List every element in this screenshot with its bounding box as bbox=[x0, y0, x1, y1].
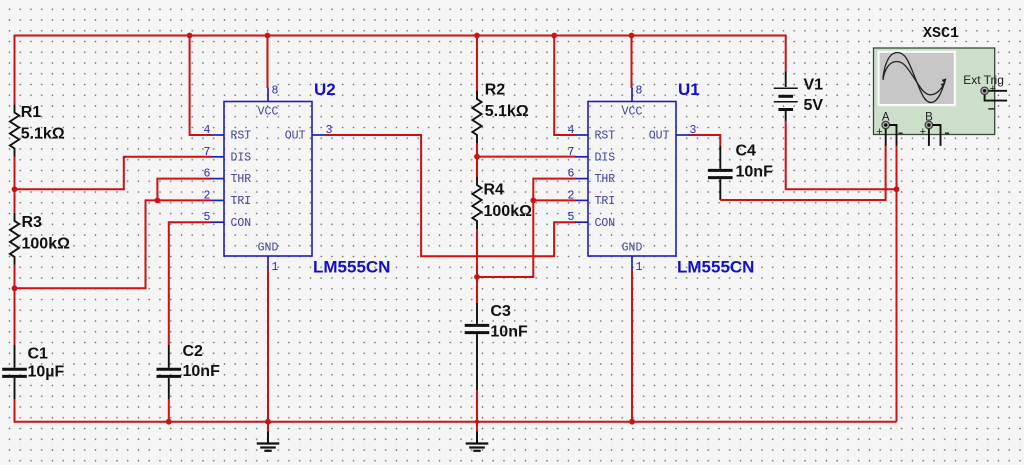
svg-text:8: 8 bbox=[272, 85, 279, 98]
svg-text:C1: C1 bbox=[28, 345, 49, 362]
U1 pin 5 CON stub bbox=[575, 221, 588, 223]
U2 pin 1 GND stub bbox=[267, 256, 269, 270]
svg-text:OUT: OUT bbox=[649, 130, 670, 143]
svg-text:THR: THR bbox=[231, 173, 252, 186]
wire R1 bottom to node A junction bbox=[14, 157, 16, 190]
wire U1 GND pin1 to ground rail bbox=[631, 270, 633, 422]
XSC1 channel A minus mark bbox=[898, 132, 902, 134]
junction node C (R2/R4/U1-DIS) bbox=[474, 154, 480, 160]
junction top rail at R2 bbox=[474, 33, 480, 39]
svg-text:DIS: DIS bbox=[595, 151, 616, 164]
svg-text:DIS: DIS bbox=[231, 151, 252, 164]
svg-text:U1: U1 bbox=[678, 80, 700, 99]
svg-text:100kΩ: 100kΩ bbox=[484, 203, 533, 220]
junction node B (R3/C1/U2-TRI) bbox=[12, 285, 18, 291]
svg-text:1: 1 bbox=[636, 261, 643, 274]
junction top rail at U2 VCC bbox=[265, 33, 271, 39]
U1 pin 1 GND stub bbox=[631, 256, 633, 270]
wire node A to R3 top bbox=[14, 189, 16, 213]
svg-text:A: A bbox=[882, 112, 890, 124]
U1 pin 8 VCC stub bbox=[631, 88, 633, 102]
wire top VCC rail from left rail to V1 bbox=[15, 35, 786, 37]
XSC1 Ext Trig minus mark bbox=[988, 108, 994, 110]
XSC1 channel B+ pin stub bbox=[928, 129, 930, 146]
svg-text:5: 5 bbox=[568, 211, 575, 224]
wire U1 VCC pin8 to top rail bbox=[631, 36, 633, 89]
XSC1 channel B terminal bbox=[925, 121, 932, 128]
XSC1 Ext Trig terminal bbox=[981, 87, 988, 94]
svg-text:+: + bbox=[990, 83, 996, 95]
wire C4 bottom to scope channel A+ bbox=[720, 145, 885, 200]
XSC1 Ext Trig+ pin stub bbox=[988, 90, 1007, 92]
XSC1 screen bbox=[878, 51, 956, 106]
wire R4 bottom to node D bbox=[476, 229, 478, 277]
svg-text:OUT: OUT bbox=[285, 130, 306, 143]
U2 pin 5 CON stub bbox=[211, 221, 224, 223]
junction top rail at U1 RST riser bbox=[551, 33, 557, 39]
svg-text:C3: C3 bbox=[490, 303, 511, 320]
wire U2 THR pin6 down to TRI net bbox=[157, 179, 211, 201]
svg-text:10µF: 10µF bbox=[28, 364, 65, 381]
resistor R3 body bbox=[10, 213, 19, 265]
svg-text:5.1kΩ: 5.1kΩ bbox=[485, 103, 529, 120]
svg-text:GND: GND bbox=[622, 242, 643, 255]
svg-text:R3: R3 bbox=[22, 214, 43, 231]
svg-text:8: 8 bbox=[636, 85, 643, 98]
U1 pin 7 DIS stub bbox=[575, 156, 588, 158]
svg-text:XSC1: XSC1 bbox=[923, 25, 959, 42]
wire C2 bottom to ground rail bbox=[168, 399, 170, 422]
U2 pin 8 VCC stub bbox=[267, 88, 269, 102]
XSC1 channel A- pin stub hook bbox=[889, 125, 896, 146]
svg-text:LM555CN: LM555CN bbox=[677, 258, 754, 277]
svg-text:R4: R4 bbox=[484, 182, 505, 199]
junction top rail at U1 VCC bbox=[629, 33, 635, 39]
wire U2 RST pin4 from top rail bbox=[190, 36, 211, 136]
U1 pin 2 TRI stub bbox=[575, 199, 588, 201]
XSC1 channel A+ pin stub bbox=[885, 129, 887, 146]
svg-text:R2: R2 bbox=[485, 82, 506, 99]
junction top rail at U2 RST riser bbox=[187, 33, 193, 39]
svg-text:10nF: 10nF bbox=[490, 324, 528, 341]
svg-text:1: 1 bbox=[272, 261, 279, 274]
wire U2 OUT pin3 to U1 CON pin5 bbox=[325, 135, 576, 256]
ground symbol under U2 bbox=[257, 422, 280, 451]
XSC1 screen sine wave trace 1 bbox=[883, 53, 946, 103]
svg-text:Ext Trig: Ext Trig bbox=[963, 73, 1004, 87]
U2 pin 7 DIS stub bbox=[211, 156, 224, 158]
oscilloscope XSC1 body bbox=[874, 48, 995, 135]
wire bottom ground rail bbox=[14, 421, 897, 423]
XSC1 channel B- pin stub hook bbox=[933, 125, 941, 146]
XSC1 screen sine wave trace 2 bbox=[883, 62, 945, 95]
junction ground rail at U1 GND bbox=[629, 419, 635, 425]
wire V1 negative to junction node E bbox=[786, 121, 897, 189]
wire scope A- down through node E to ground rail bbox=[896, 145, 898, 421]
XSC1 channel A terminal bbox=[882, 121, 889, 128]
junction node E (V1-/scope A-/ground rail) bbox=[894, 186, 900, 192]
svg-text:RST: RST bbox=[231, 130, 252, 143]
junction ground rail at C3 bbox=[475, 420, 479, 424]
wire U1 DIS pin7 from node C bbox=[477, 156, 576, 158]
svg-text:VCC: VCC bbox=[622, 106, 643, 119]
wire U1 TRI pin2 tie to node D bbox=[478, 200, 576, 277]
wire top rail corner down to V1 bbox=[785, 35, 787, 72]
svg-text:R1: R1 bbox=[21, 104, 42, 121]
capacitor C3 body bbox=[465, 303, 490, 390]
svg-text:RST: RST bbox=[595, 130, 616, 143]
wire node D to C3 top bbox=[476, 277, 478, 303]
wire C1 bottom to ground rail corner bbox=[14, 399, 16, 422]
svg-text:+: + bbox=[876, 126, 882, 138]
capacitor C1 body bbox=[2, 345, 27, 399]
svg-text:C4: C4 bbox=[736, 143, 757, 160]
svg-text:CON: CON bbox=[595, 217, 616, 230]
capacitor C4 body bbox=[708, 146, 733, 200]
wire U2 TRI pin2 to node B bbox=[16, 200, 212, 288]
U2 pin 6 THR stub bbox=[211, 178, 224, 180]
wire U1 THR pin6 down to TRI tie bbox=[533, 179, 575, 201]
svg-text:TRI: TRI bbox=[231, 195, 252, 208]
svg-text:C2: C2 bbox=[183, 343, 204, 360]
svg-text:5.1kΩ: 5.1kΩ bbox=[21, 125, 65, 142]
junction node A (R1/R3/U2-DIS) bbox=[12, 186, 18, 192]
wire R2 bottom to node C bbox=[476, 143, 478, 157]
wire U2 VCC pin8 to top rail bbox=[267, 36, 269, 89]
svg-text:5V: 5V bbox=[804, 97, 824, 114]
U1 pin 6 THR stub bbox=[575, 178, 588, 180]
U2 pin 2 TRI stub bbox=[211, 199, 224, 201]
svg-text:+: + bbox=[920, 126, 926, 138]
XSC1 channel B minus mark bbox=[945, 132, 949, 134]
svg-text:7: 7 bbox=[568, 146, 575, 159]
wire left rail top segment (top rail to R1) bbox=[14, 35, 16, 105]
battery V1 symbol bbox=[774, 72, 798, 122]
wire top rail to R2 bbox=[476, 36, 478, 92]
svg-text:10nF: 10nF bbox=[183, 363, 221, 380]
U1 pin 3 OUT stub bbox=[676, 134, 689, 136]
capacitor C2 body bbox=[157, 345, 182, 399]
wire node C to R4 bbox=[476, 157, 478, 177]
wire U1 OUT pin3 to C4 bbox=[689, 135, 720, 146]
junction ground rail at U2 GND bbox=[265, 419, 271, 425]
XSC1 Ext Trig- pin stub hook bbox=[985, 95, 1008, 101]
wire U1 RST pin4 from top rail bbox=[554, 36, 575, 136]
svg-text:LM555CN: LM555CN bbox=[313, 258, 390, 277]
svg-text:100kΩ: 100kΩ bbox=[22, 235, 71, 252]
svg-text:10nF: 10nF bbox=[736, 164, 774, 181]
svg-text:TRI: TRI bbox=[595, 195, 616, 208]
resistor R1 body bbox=[10, 105, 19, 157]
svg-text:GND: GND bbox=[258, 242, 279, 255]
svg-text:V1: V1 bbox=[804, 77, 824, 94]
U2 pin 3 OUT stub bbox=[312, 134, 325, 136]
wire U2 GND pin1 to ground rail bbox=[267, 270, 269, 422]
wire U2 DIS pin7 to node A bbox=[16, 157, 212, 190]
svg-text:VCC: VCC bbox=[258, 106, 279, 119]
ground symbol under C3 bbox=[466, 422, 489, 451]
svg-text:B: B bbox=[925, 112, 933, 124]
wire R3 bottom to node B junction bbox=[14, 265, 16, 288]
junction node D (R4/C3/U1-TRI net) bbox=[474, 274, 480, 280]
wire C3 bottom to ground rail bbox=[476, 390, 478, 422]
junction U1 THR/TRI tie bbox=[530, 198, 536, 204]
svg-text:U2: U2 bbox=[314, 80, 336, 99]
resistor R2 body bbox=[472, 91, 481, 143]
op-amp/timer IC U1 LM555CN box bbox=[588, 102, 676, 257]
U2 pin 4 RST stub bbox=[211, 134, 224, 136]
wire U2 CON pin5 down to C2 bbox=[169, 222, 211, 345]
junction U2 THR/TRI tie bbox=[155, 198, 161, 204]
U1 pin 4 RST stub bbox=[575, 134, 588, 136]
junction ground rail at C2 bbox=[166, 419, 172, 425]
svg-text:CON: CON bbox=[231, 217, 252, 230]
wire node B to C1 top bbox=[14, 288, 16, 345]
resistor R4 body bbox=[472, 177, 481, 229]
svg-text:THR: THR bbox=[595, 173, 616, 186]
op-amp/timer IC U2 LM555CN box bbox=[224, 102, 312, 257]
